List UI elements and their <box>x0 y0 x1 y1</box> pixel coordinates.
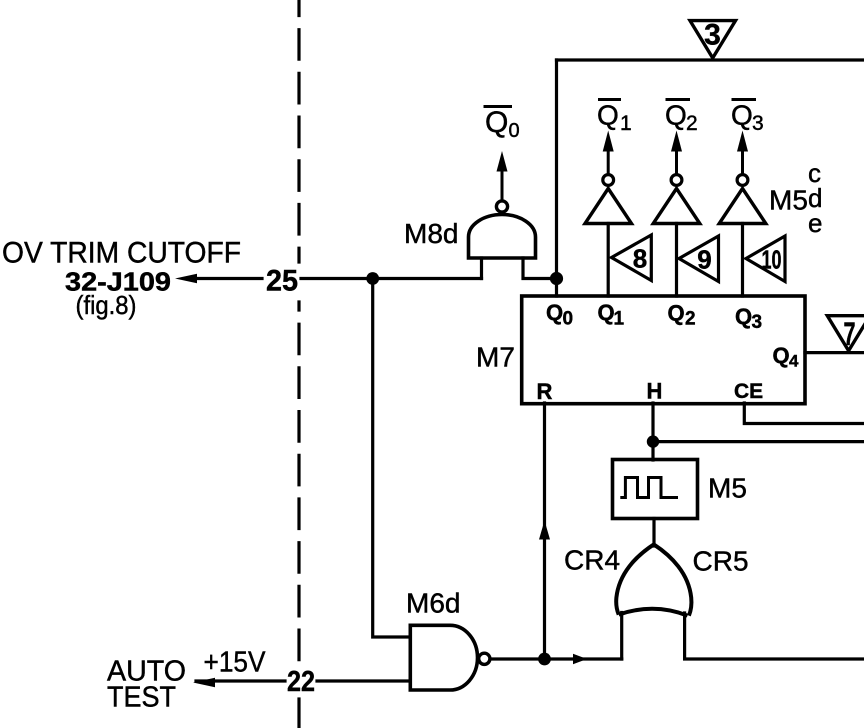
node: junction Q0 / M8d output net <box>550 272 563 285</box>
node: junction H pin / horizontal bus <box>647 435 659 447</box>
bubble of M8d <box>496 201 507 212</box>
svg-text:10: 10 <box>762 245 782 275</box>
svg-text:3: 3 <box>704 19 721 52</box>
wire: vertical from top bus down to node 25/Q0 <box>555 60 558 296</box>
svg-text:Q: Q <box>485 106 508 139</box>
svg-text:3: 3 <box>752 112 764 135</box>
svg-text:3: 3 <box>752 312 763 333</box>
svg-text:e: e <box>808 208 822 238</box>
svg-text:0: 0 <box>509 120 520 142</box>
svg-text:9: 9 <box>697 245 711 275</box>
IC M7 counter box <box>522 296 805 404</box>
label Q2-bar <box>666 98 691 101</box>
svg-text:Q: Q <box>731 100 753 131</box>
bubble of M5c <box>603 175 614 186</box>
wire: M8d right input leg to Q0 node <box>523 258 557 279</box>
arrow to Q3-bar <box>741 150 744 174</box>
svg-text:TEST: TEST <box>107 682 176 714</box>
bubble of M5e <box>737 175 748 186</box>
svg-text:CE: CE <box>734 380 763 403</box>
svg-text:Q: Q <box>668 301 685 326</box>
connector triangle 3 (top) <box>690 21 736 58</box>
svg-text:0: 0 <box>563 309 574 330</box>
label Q1-bar <box>598 98 621 101</box>
dashed interface boundary line (lower segment) <box>297 699 300 728</box>
arrow to 32-J109 (points left) <box>175 274 197 283</box>
svg-text:M8d: M8d <box>404 218 458 249</box>
wire: OR gate left leg <box>620 613 623 660</box>
svg-text:CR4: CR4 <box>564 545 620 576</box>
svg-text:1: 1 <box>614 309 625 330</box>
wire: Q1 pin to inverter <box>607 224 610 297</box>
node: junction M6d output / R net <box>538 653 551 666</box>
wire: H pin vertical to pulse box <box>651 403 654 460</box>
svg-text:M5: M5 <box>769 185 808 216</box>
wire: node 25 horizontal (right of label to junction and M8d input) <box>301 277 482 280</box>
dashed interface boundary line (middle segment) <box>297 302 300 660</box>
gate M8d (NAND, pointing up) <box>468 215 535 258</box>
svg-text:M7: M7 <box>476 342 515 373</box>
inverter M5c (Q1) <box>585 189 632 224</box>
node: junction at 25 / vertical branch <box>366 272 379 285</box>
square wave symbol <box>620 478 678 498</box>
bubble of M5d <box>671 175 682 186</box>
wire: pulse box to OR gate apex <box>652 519 655 547</box>
connector triangle 9 <box>679 236 719 282</box>
svg-text:Q: Q <box>546 300 563 325</box>
svg-text:(fig.8): (fig.8) <box>76 290 137 320</box>
connector triangle 8 <box>612 235 652 281</box>
wire: 22 to gate <box>317 679 410 682</box>
svg-text:Q: Q <box>773 343 790 368</box>
wire: Q4 output to connector 7 <box>805 351 864 354</box>
svg-text:CR5: CR5 <box>693 546 749 577</box>
arrow to Q1-bar <box>607 150 610 174</box>
wire: OR gate right leg to right edge <box>685 613 864 659</box>
inverter M5e (Q3) <box>719 189 766 224</box>
arrow at AUTO TEST (points left) <box>193 678 215 687</box>
label Q0-bar <box>484 105 513 108</box>
svg-text:Q: Q <box>597 100 619 131</box>
wire: vertical from node 25 down to M6d upper input <box>373 279 411 638</box>
wire: H node horizontal to right edge <box>653 440 864 443</box>
svg-text:8: 8 <box>633 244 647 274</box>
svg-text:22: 22 <box>287 666 315 698</box>
dashed interface boundary line (upper segment) <box>297 0 300 262</box>
svg-text:M6d: M6d <box>406 588 460 619</box>
svg-text:2: 2 <box>686 112 698 135</box>
svg-text:Q: Q <box>735 304 752 329</box>
diode-OR gate CR4/CR5 <box>616 544 691 615</box>
wire: top bus to connector 3 <box>557 58 864 61</box>
svg-text:1: 1 <box>620 112 632 135</box>
label Q3-bar <box>732 98 757 101</box>
svg-text:25: 25 <box>266 265 298 298</box>
wire: node 25 horizontal (left part, to 32-J109 arrow) <box>197 277 262 280</box>
connector triangle 7 (right) <box>827 316 864 351</box>
arrow to Q2-bar <box>675 150 678 174</box>
svg-text:2: 2 <box>685 309 696 330</box>
arrow on M6d output wire <box>573 654 587 664</box>
wire: CE pin elbow to right edge <box>744 403 864 424</box>
svg-text:OV TRIM CUTOFF: OV TRIM CUTOFF <box>2 237 241 270</box>
arrow on R wire (up) <box>539 521 550 540</box>
wire: M6d output to OR gate left leg <box>491 657 622 660</box>
svg-text:Q: Q <box>598 300 615 325</box>
gate M6d (NAND, pointing right) <box>410 625 477 690</box>
connector triangle 10 <box>746 236 785 282</box>
wire: Q2 pin to inverter <box>675 224 678 297</box>
svg-text:H: H <box>647 379 663 404</box>
svg-text:Q: Q <box>665 100 687 131</box>
wire: Q3 pin to inverter <box>741 224 744 297</box>
wire: R pin vertical <box>543 403 546 659</box>
svg-text:+15V: +15V <box>204 647 267 679</box>
svg-text:7: 7 <box>844 316 856 352</box>
bubble of M6d <box>479 653 490 664</box>
svg-text:M5: M5 <box>708 473 747 504</box>
svg-text:R: R <box>537 379 553 404</box>
wire: AUTO TEST 22 to M6d lower input <box>196 679 285 682</box>
pulse generator box M5 <box>613 460 698 519</box>
wire: M8d left input leg <box>480 258 483 279</box>
svg-text:4: 4 <box>789 352 799 371</box>
output arrow of M8d to Q0-bar <box>501 166 504 200</box>
inverter M5d (Q2) <box>653 189 700 224</box>
